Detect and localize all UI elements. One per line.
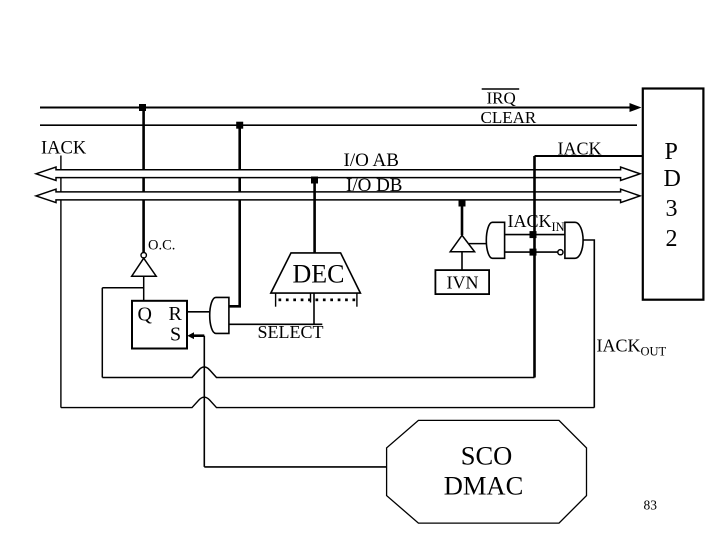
svg-text:OUT: OUT [641, 345, 667, 359]
svg-text:IACK: IACK [597, 336, 641, 356]
svg-text:P: P [665, 139, 678, 165]
svg-text:SCO: SCO [461, 441, 513, 471]
svg-text:IVN: IVN [447, 273, 479, 293]
svg-text:R: R [169, 303, 183, 325]
svg-text:IN: IN [552, 220, 565, 234]
svg-text:I/O DB: I/O DB [346, 175, 402, 196]
svg-text:DEC: DEC [293, 260, 345, 289]
svg-text:I/O AB: I/O AB [344, 150, 399, 171]
svg-text:IRQ: IRQ [487, 89, 516, 108]
svg-text:DMAC: DMAC [444, 471, 524, 501]
svg-text:IACK: IACK [41, 139, 87, 159]
svg-text:CLEAR: CLEAR [481, 108, 537, 127]
svg-text:SELECT: SELECT [258, 322, 324, 342]
svg-text:83: 83 [644, 498, 658, 513]
svg-text:3: 3 [666, 196, 678, 222]
svg-text:2: 2 [666, 226, 678, 252]
svg-text:O.C.: O.C. [148, 238, 175, 254]
svg-text:S: S [170, 324, 181, 346]
svg-text:IACK: IACK [508, 211, 552, 231]
svg-text:Q: Q [138, 304, 153, 326]
svg-text:D: D [664, 166, 681, 192]
